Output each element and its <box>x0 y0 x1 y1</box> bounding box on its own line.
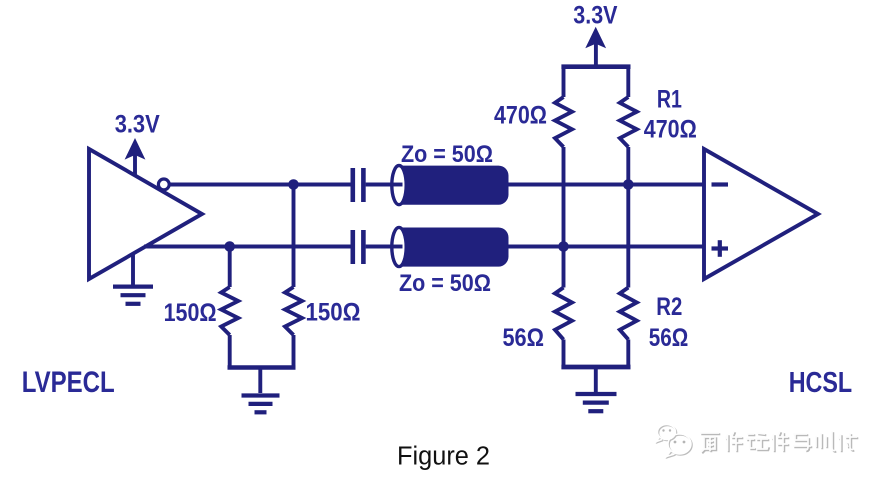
ground (termination) <box>576 367 617 411</box>
wire: R4 bottom to common bar <box>292 335 296 368</box>
resistor 56ohm (left, pulls bottom line down) <box>555 288 572 340</box>
svg-text:Zo = 50Ω: Zo = 50Ω <box>401 141 493 168</box>
transmission line T2 Zo=50ohm (bottom) <box>391 227 509 266</box>
node: junction dot top line / right branch <box>623 179 634 190</box>
watermark text (embossed CJK strokes) <box>700 431 858 453</box>
ground (150ohm pair) <box>242 368 280 413</box>
pin + (non-inverting input mark) <box>712 240 729 257</box>
svg-text:470Ω: 470Ω <box>494 102 547 130</box>
wire: top bar of pull-up pair <box>561 64 630 69</box>
svg-text:R1: R1 <box>657 86 682 114</box>
wire: C2 right plate into bottom transmission line <box>366 245 402 249</box>
svg-text:3.3V: 3.3V <box>115 111 160 139</box>
wire: top line from bubble to capacitor C1 <box>171 183 352 187</box>
svg-text:HCSL: HCSL <box>789 367 853 399</box>
op-amp U2 HCSL receiver triangle <box>704 149 818 279</box>
wire: vertical drop from top-line dot into R4 (crosses bottom line) <box>292 185 296 288</box>
wire: right branch across bottom line into R2 <box>626 185 630 288</box>
wire: vertical drop from bottom-line dot into R3 <box>228 247 232 288</box>
resistor 470ohm (left, pulls bottom line up) <box>555 97 572 147</box>
wire: bottom line from driver to capacitor C2 <box>144 245 351 249</box>
resistor R2 56ohm (right, pulls top line down) <box>620 288 637 340</box>
wire: left branch 56ohm to lower bar <box>562 340 566 368</box>
wire: R3 bottom to common bar <box>228 335 232 368</box>
pin - (inverting input mark) <box>712 182 729 186</box>
watermark logo (chat bubbles) <box>657 425 693 458</box>
svg-text:150Ω: 150Ω <box>164 299 217 327</box>
power 3.3V arrow (termination) <box>585 27 606 66</box>
svg-text:3.3V: 3.3V <box>573 1 617 29</box>
transmission line T1 Zo=50ohm (top) <box>391 166 509 205</box>
wire: left branch below bottom line into 56ohm <box>562 247 566 288</box>
wire: right pull branch upper segment <box>626 67 630 97</box>
svg-text:Zo = 50Ω: Zo = 50Ω <box>399 270 491 297</box>
node: junction dot bottom line / left branch <box>558 241 569 252</box>
wire: C1 right plate into top transmission line <box>366 183 402 187</box>
wire: left branch from 470ohm down across top line to bottom line <box>562 147 566 247</box>
capacitor C1 (top line) <box>353 168 364 202</box>
svg-text:LVPECL: LVPECL <box>22 366 115 399</box>
ground (driver) <box>113 254 153 304</box>
op-amp U1 LVPECL driver triangle <box>89 149 202 279</box>
wire: left pull branch upper segment <box>562 67 566 97</box>
svg-text:470Ω: 470Ω <box>644 116 697 144</box>
resistor R3 150ohm (bottom line terminator) <box>221 287 238 335</box>
svg-text:56Ω: 56Ω <box>503 324 545 352</box>
wire: right branch R2 to lower bar <box>626 340 630 368</box>
wire: top transmission line to HCSL input <box>509 183 705 187</box>
resistor R4 150ohm (top line terminator) <box>285 287 302 335</box>
svg-text:Figure 2: Figure 2 <box>397 443 490 471</box>
capacitor C2 (bottom line) <box>353 230 364 264</box>
power 3.3V arrow (driver) <box>125 138 146 176</box>
inversion bubble on driver output <box>158 179 169 190</box>
wire: right branch from R1 down to top line <box>626 147 630 185</box>
svg-text:56Ω: 56Ω <box>649 324 689 352</box>
wire: bottom transmission line to HCSL input <box>509 245 705 249</box>
svg-text:R2: R2 <box>656 293 682 321</box>
wire: common bottom bar joining R3 and R4 <box>228 365 296 370</box>
resistor R1 470ohm (right, pulls top line up) <box>620 97 637 147</box>
node: junction dot top line / 150ohm R4 <box>288 179 299 190</box>
node: junction dot bottom line / 150ohm R3 <box>224 241 235 252</box>
svg-text:150Ω: 150Ω <box>306 299 361 327</box>
wire: lower bar joining 56ohm pair <box>561 365 630 370</box>
